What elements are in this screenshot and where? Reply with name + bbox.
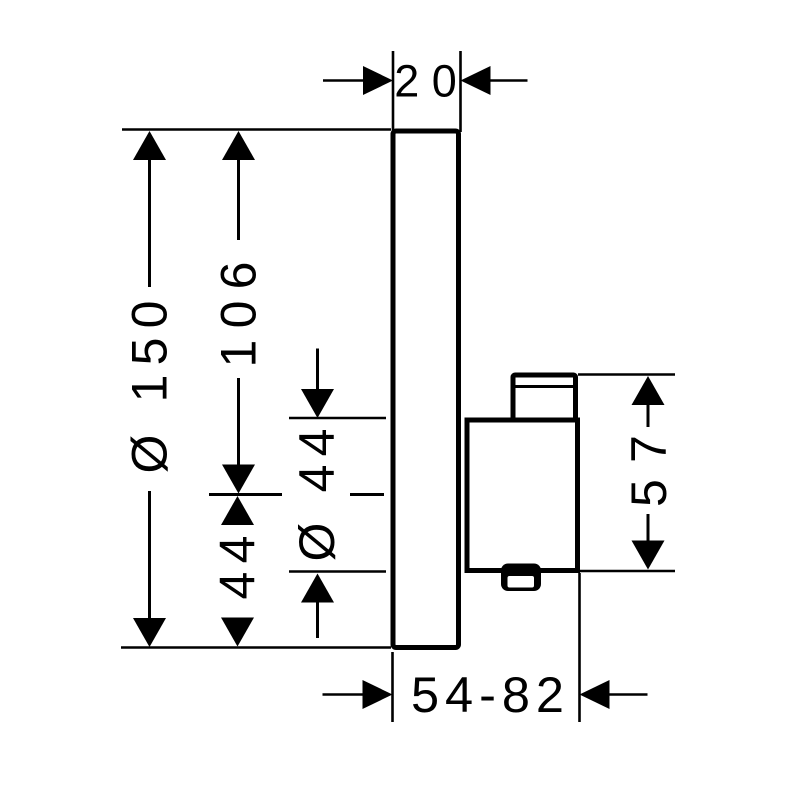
dim D150: bottom arrow <box>133 618 166 647</box>
dim 20: left arrow <box>363 66 393 95</box>
dim 54-82: left leader line <box>323 693 365 696</box>
dim 57: lower line <box>647 514 650 541</box>
dim 20: right leader line <box>491 79 528 82</box>
handle bottom button window <box>508 576 535 588</box>
tab inner line <box>516 385 574 388</box>
dim 20: left extension line <box>392 51 395 132</box>
dim D44: bottom arrow <box>301 574 334 603</box>
svg-text:54-82: 54-82 <box>411 666 564 723</box>
dim 106: upper line <box>237 160 240 240</box>
center line of handle (left segment) <box>209 493 282 496</box>
center line of handle (right segment) <box>350 493 384 496</box>
dim 54-82: right arrow <box>580 680 610 709</box>
dim 106: top arrow <box>222 131 255 160</box>
left dims: top extension line <box>122 128 391 131</box>
dim 20: left leader line <box>323 79 364 82</box>
dim 57: bottom extension line <box>580 570 675 573</box>
dim 54-82: right extension line <box>578 573 581 722</box>
svg-text:106: 106 <box>211 262 267 368</box>
dim 20: right extension line <box>459 51 462 132</box>
dim D150: upper line <box>148 160 151 287</box>
svg-text:2 0: 2 0 <box>394 56 457 107</box>
dim D44: lower line <box>316 603 319 639</box>
dim 57: top arrow <box>632 376 665 405</box>
dim 57: top extension line <box>578 373 675 376</box>
svg-text:Ø 150: Ø 150 <box>122 301 178 474</box>
dim 54-82: left arrow <box>363 680 393 709</box>
plate (escutcheon front view, side profile) <box>393 131 459 648</box>
dim 20: right arrow <box>461 66 491 95</box>
dim D150: top arrow <box>133 131 166 160</box>
dim 54-82: right leader line <box>610 693 648 696</box>
dim D44: upper line <box>316 349 319 391</box>
handle body <box>467 420 578 571</box>
dim D44: top tick <box>289 417 386 420</box>
dim 57: bottom arrow <box>632 541 665 570</box>
handle bottom button <box>501 564 541 592</box>
dim 57: upper line <box>647 405 650 427</box>
dim D150: lower line <box>148 491 151 618</box>
handle top tab (stem) <box>513 375 576 420</box>
dim 106: bottom arrow <box>222 465 255 494</box>
dim 106: lower line <box>237 378 240 466</box>
left dims: bottom extension line <box>121 646 391 649</box>
dim 44 left: bottom arrow <box>221 618 254 647</box>
dim 54-82: left extension line <box>391 652 394 722</box>
dim 44 left: top arrow <box>221 496 254 525</box>
dim D44: bottom tick <box>289 570 386 573</box>
dim D44: top arrow <box>301 389 334 418</box>
